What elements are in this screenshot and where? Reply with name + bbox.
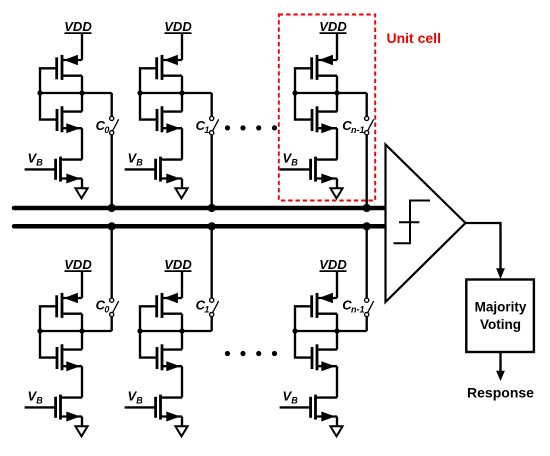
VB bias label (cell x+255,top) [283,151,299,168]
wire NMOS source to tail drain (cell x+0,bottom) [81,366,83,397]
svg-text:B: B [291,395,298,405]
wire NMOS gate to node (cell x+100,bottom) [140,331,157,358]
svg-text:VDD: VDD [319,257,347,272]
VB bias label (cell x+100,bottom) [128,389,144,406]
switch C0 (cell x+0,top) [110,116,119,134]
NMOS tail current-source transistor (cell x+255,top) [311,157,337,184]
wire node to switch (cell x+0,top) [111,93,113,116]
wire VB to tail gate (cell x+0,top) [25,168,56,170]
NMOS tail current-source transistor (cell x+255,bottom) [311,395,337,422]
wire VB to tail gate (cell x+100,top) [125,168,156,170]
wire PMOS drain to node (cell x+255,bottom) [336,314,338,331]
node wire gate/drain net (cell x+255,bottom) [295,330,367,332]
junction dot left (cell x+255,top) [292,90,297,95]
wire node to NMOS drain (cell x+100,top) [181,93,183,112]
junction dot right (cell x+0,bottom) [79,328,84,333]
wire NMOS source to tail drain (cell x+100,top) [181,128,183,159]
junction dot right (cell x+100,top) [179,90,184,95]
PMOS diode-connected load transistor (cell x+255,bottom) [312,293,337,318]
wire bottom bus to switch (cell x+255,bottom) [366,226,368,298]
svg-text:Majority: Majority [475,300,527,315]
bus junction dot at x=211.7 top bus [208,204,216,212]
wire PMOS drain to node (cell x+100,bottom) [181,314,183,331]
wire VB to tail gate (cell x+0,bottom) [25,406,56,408]
top bus wire [14,206,385,211]
wire PMOS gate to node (cell x+255,bottom) [295,306,312,331]
node wire gate/drain net (cell x+100,bottom) [140,330,212,332]
wire bottom bus to switch (cell x+0,bottom) [111,226,113,298]
wire NMOS source to tail drain (cell x+255,top) [336,128,338,159]
junction dot left (cell x+0,top) [37,90,42,95]
majority voting block [466,280,534,353]
junction dot right (cell x+255,bottom) [334,328,339,333]
NMOS tail current-source transistor (cell x+100,top) [156,157,182,184]
VDD supply label (cell x+0,bottom) [64,257,92,272]
svg-text:B: B [136,157,143,167]
wire tail source to ground (cell x+100,top) [181,179,183,189]
wire NMOS source to tail drain (cell x+255,bottom) [336,366,338,397]
switch Cn-1 (cell x+255,bottom) [365,298,374,317]
wire tail source to ground (cell x+100,bottom) [181,417,183,427]
label Cn-1 (cell x+255,top) [342,118,364,135]
node wire gate/drain net (cell x+255,top) [295,92,367,94]
svg-text:1: 1 [204,125,209,135]
wire switch to node (cell x+0,bottom) [111,317,113,331]
VB bias label (cell x+0,top) [28,151,44,168]
wire switch to node (cell x+255,bottom) [366,317,368,331]
comparator U1 [386,145,466,303]
switch C1 (cell x+100,bottom) [210,298,219,317]
NMOS mirror transistor (cell x+0,top) [57,106,82,133]
junction dot left (cell x+100,bottom) [137,328,142,333]
svg-text:VDD: VDD [64,19,92,34]
wire node to NMOS drain (cell x+255,bottom) [336,331,338,350]
svg-text:Response: Response [467,384,534,400]
VDD supply label (cell x+100,top) [164,19,192,34]
wire NMOS source to tail drain (cell x+0,top) [81,128,83,159]
wire tail source to ground (cell x+0,bottom) [81,417,83,427]
ellipsis dots (bottom row) [225,351,277,356]
label C1 (cell x+100,bottom) [196,298,210,315]
wire tail source to ground (cell x+255,bottom) [336,417,338,427]
wire node to NMOS drain (cell x+100,bottom) [181,331,183,350]
wire switch to top bus (cell x+255,top) [366,135,368,208]
node wire gate/drain net (cell x+100,top) [140,92,212,94]
arrowhead into majority voting [496,268,505,279]
wire VDD to PMOS source (cell x+100,bottom) [181,272,183,298]
junction dot left (cell x+0,bottom) [37,328,42,333]
VDD supply label (cell x+0,top) [64,19,92,34]
switch Cn-1 (cell x+255,top) [365,116,374,134]
wire node to NMOS drain (cell x+255,top) [336,93,338,112]
NMOS mirror transistor (cell x+255,top) [312,106,337,133]
PMOS diode-connected load transistor (cell x+0,top) [57,55,82,80]
PMOS diode-connected load transistor (cell x+255,top) [312,55,337,80]
junction dot left (cell x+255,bottom) [292,328,297,333]
VB bias label (cell x+100,top) [128,151,144,168]
NMOS tail current-source transistor (cell x+0,top) [56,157,82,184]
ground symbol (cell x+100,bottom) [175,426,187,436]
wire PMOS drain to node (cell x+0,bottom) [81,314,83,331]
label C0 (cell x+0,top) [96,118,110,135]
wire VDD to PMOS source (cell x+255,top) [336,34,338,60]
VB bias label (cell x+0,bottom) [28,389,44,406]
wire VB to tail gate (cell x+255,top) [280,168,311,170]
wire PMOS gate to node (cell x+100,bottom) [140,306,157,331]
svg-text:Unit cell: Unit cell [387,30,441,46]
wire VDD to PMOS source (cell x+0,top) [81,34,83,60]
svg-text:1: 1 [204,304,209,314]
wire bottom bus to switch (cell x+100,bottom) [211,226,213,298]
wire VDD to PMOS source (cell x+0,bottom) [81,272,83,298]
wire VB to tail gate (cell x+255,bottom) [280,406,311,408]
label C1 (cell x+100,top) [196,118,210,135]
NMOS mirror transistor (cell x+255,bottom) [312,344,337,371]
wire PMOS gate to node (cell x+0,bottom) [40,306,57,331]
wire majority voting to response [499,352,501,371]
wire switch to top bus (cell x+0,top) [111,135,113,208]
wire comparator output [466,223,501,269]
bus junction dot at x=111.7 top bus [108,204,116,212]
junction dot right (cell x+255,top) [334,90,339,95]
hysteresis symbol [394,201,431,244]
svg-text:Voting: Voting [480,317,521,332]
junction dot right (cell x+100,bottom) [179,328,184,333]
NMOS mirror transistor (cell x+100,bottom) [157,344,182,371]
wire tail source to ground (cell x+0,top) [81,179,83,189]
node wire gate/drain net (cell x+0,bottom) [40,330,112,332]
svg-text:B: B [36,395,43,405]
wire NMOS gate to node (cell x+255,bottom) [295,331,312,358]
unit cell dashed outline box [279,15,375,201]
switch C1 (cell x+100,top) [210,116,219,134]
wire NMOS gate to node (cell x+0,bottom) [40,331,57,358]
wire NMOS source to tail drain (cell x+100,bottom) [181,366,183,397]
wire PMOS gate to node (cell x+0,top) [40,68,57,93]
bus junction dot at x=111.7 bottom bus [108,222,116,230]
svg-text:0: 0 [104,304,109,314]
svg-text:VDD: VDD [164,19,192,34]
PMOS diode-connected load transistor (cell x+0,bottom) [57,293,82,318]
svg-text:B: B [291,157,298,167]
NMOS mirror transistor (cell x+100,top) [157,106,182,133]
wire node to NMOS drain (cell x+0,top) [81,93,83,112]
wire node to NMOS drain (cell x+0,bottom) [81,331,83,350]
svg-text:n-1: n-1 [351,125,365,135]
VDD supply label (cell x+255,top) [319,19,347,34]
svg-text:VDD: VDD [164,257,192,272]
VDD supply label (cell x+255,bottom) [319,257,347,272]
svg-text:0: 0 [104,125,109,135]
wire switch to top bus (cell x+100,top) [211,135,213,208]
bus junction dot at x=366.7 bottom bus [363,222,371,230]
junction dot right (cell x+0,top) [79,90,84,95]
wire node to switch (cell x+255,top) [366,93,368,116]
svg-text:VDD: VDD [64,257,92,272]
VB bias label (cell x+255,bottom) [283,389,299,406]
wire VDD to PMOS source (cell x+255,bottom) [336,272,338,298]
ellipsis dots (top row) [225,125,277,130]
wire PMOS gate to node (cell x+255,top) [295,68,312,93]
svg-text:B: B [36,157,43,167]
bus junction dot at x=366.7 top bus [363,204,371,212]
ground symbol (cell x+255,top) [330,188,342,198]
wire switch to node (cell x+100,bottom) [211,317,213,331]
wire VDD to PMOS source (cell x+100,top) [181,34,183,60]
wire PMOS drain to node (cell x+255,top) [336,76,338,93]
switch C0 (cell x+0,bottom) [110,298,119,317]
svg-text:B: B [136,395,143,405]
NMOS tail current-source transistor (cell x+0,bottom) [56,395,82,422]
wire NMOS gate to node (cell x+255,top) [295,93,312,120]
node wire gate/drain net (cell x+0,top) [40,92,112,94]
ground symbol (cell x+255,bottom) [330,426,342,436]
wire node to switch (cell x+100,top) [211,93,213,116]
label C0 (cell x+0,bottom) [96,298,110,315]
wire PMOS drain to node (cell x+100,top) [181,76,183,93]
VDD supply label (cell x+100,bottom) [164,257,192,272]
PMOS diode-connected load transistor (cell x+100,top) [157,55,182,80]
wire NMOS gate to node (cell x+100,top) [140,93,157,120]
bus junction dot at x=211.7 bottom bus [208,222,216,230]
NMOS tail current-source transistor (cell x+100,bottom) [156,395,182,422]
bottom bus wire [14,224,385,229]
PMOS diode-connected load transistor (cell x+100,bottom) [157,293,182,318]
wire NMOS gate to node (cell x+0,top) [40,93,57,120]
ground symbol (cell x+0,bottom) [75,426,87,436]
arrowhead response [496,371,505,381]
ground symbol (cell x+0,top) [75,188,87,198]
wire tail source to ground (cell x+255,top) [336,179,338,189]
NMOS mirror transistor (cell x+0,bottom) [57,344,82,371]
junction dot left (cell x+100,top) [137,90,142,95]
svg-text:n-1: n-1 [351,304,365,314]
ground symbol (cell x+100,top) [175,188,187,198]
svg-text:VDD: VDD [319,19,347,34]
wire PMOS drain to node (cell x+0,top) [81,76,83,93]
wire PMOS gate to node (cell x+100,top) [140,68,157,93]
wire VB to tail gate (cell x+100,bottom) [125,406,156,408]
label Cn-1 (cell x+255,bottom) [342,298,364,315]
